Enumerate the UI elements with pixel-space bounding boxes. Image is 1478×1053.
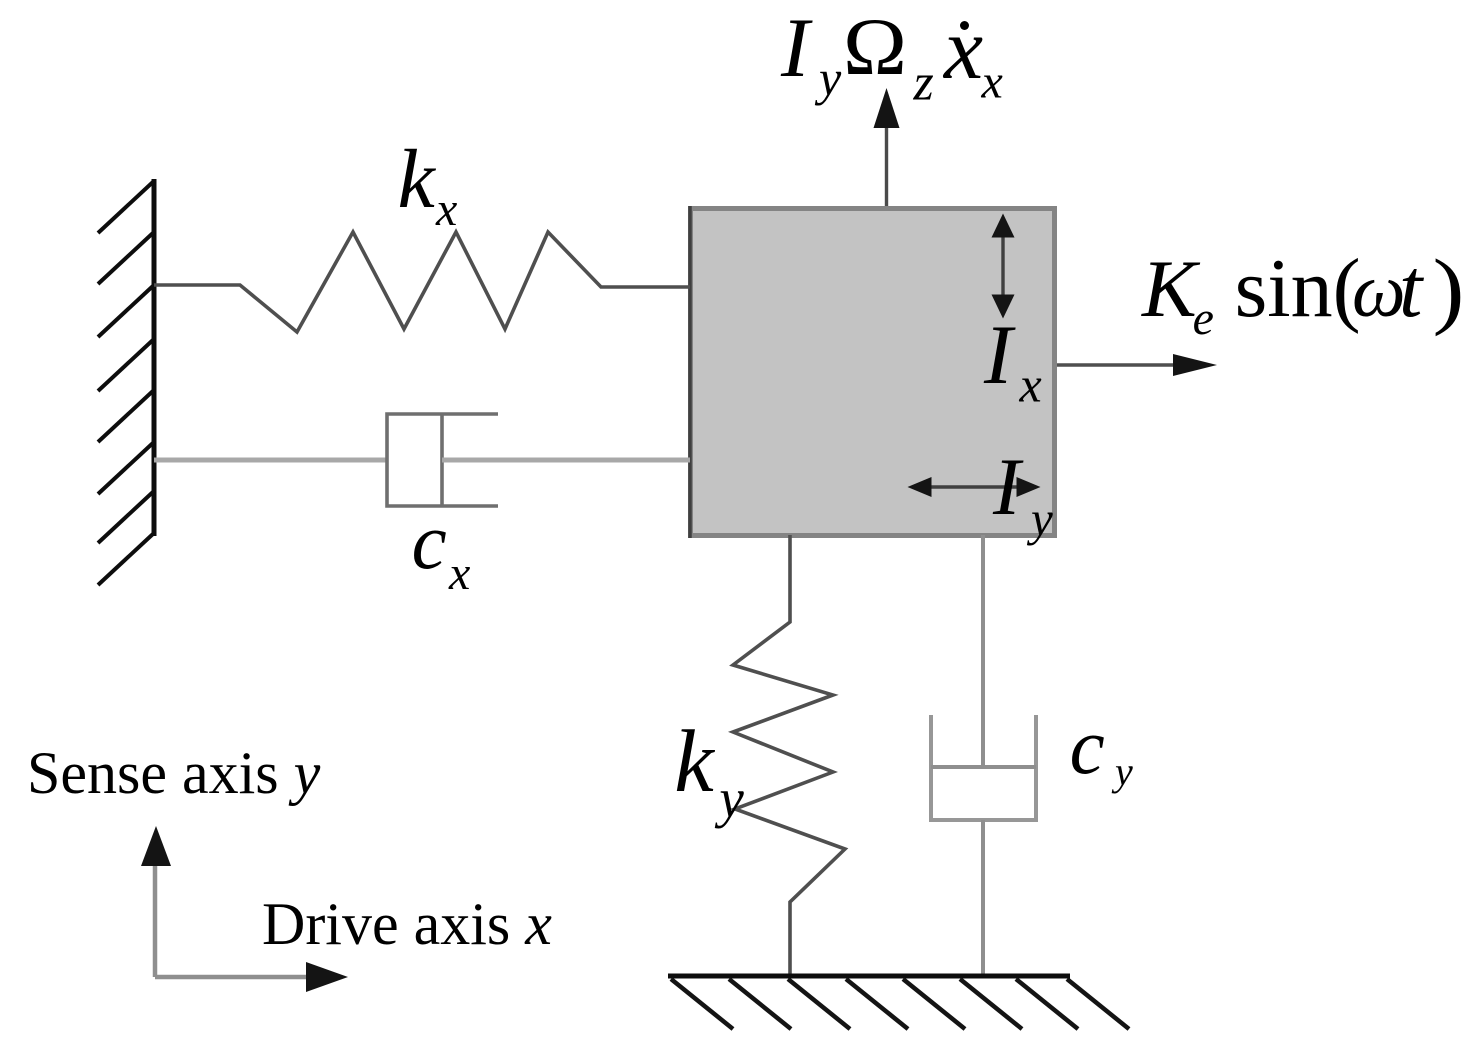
label Drive axis x xyxy=(262,891,552,957)
label Ke sin(wt) xyxy=(1141,241,1465,345)
Ke sin(wt) force arrow xyxy=(1057,354,1217,376)
svg-text:Ω: Ω xyxy=(843,1,907,92)
wall hatch 4 xyxy=(98,339,154,391)
ground hatch 1 xyxy=(671,979,733,1029)
label Ix xyxy=(983,308,1042,413)
ground hatch 4 xyxy=(846,979,908,1029)
ground xyxy=(668,974,1070,979)
label Iy Omega_z xdot_x xyxy=(780,1,1003,112)
svg-text:k: k xyxy=(674,713,715,811)
svg-text:t: t xyxy=(1399,242,1425,335)
svg-text:sin(: sin( xyxy=(1235,242,1361,335)
top Coriolis force arrow xyxy=(874,88,900,206)
mass left edge (darker) xyxy=(688,206,692,538)
wall hatch 8 xyxy=(98,533,154,585)
svg-text:I: I xyxy=(780,1,813,95)
svg-text:x: x xyxy=(1019,357,1042,413)
wall hatch 7 xyxy=(98,491,154,543)
svg-text:x: x xyxy=(981,56,1003,109)
ground hatch 2 xyxy=(729,979,791,1029)
damper cx cylinder xyxy=(387,414,498,506)
svg-text:y: y xyxy=(1111,749,1133,794)
svg-text:y: y xyxy=(1026,491,1053,546)
Ix displacement double arrow xyxy=(992,214,1015,319)
damper cx rod right xyxy=(442,458,690,463)
label kx xyxy=(398,133,458,236)
drive axis arrow (horizontal) xyxy=(155,975,310,980)
svg-text:I: I xyxy=(992,441,1024,532)
ground hatch 7 xyxy=(1016,979,1078,1029)
wall hatch 5 xyxy=(98,390,154,442)
damper cx piston xyxy=(440,414,444,506)
wall (left fixed support) xyxy=(152,179,157,536)
ground hatch 3 xyxy=(788,979,850,1029)
ground hatch 6 xyxy=(960,979,1022,1029)
svg-text:z: z xyxy=(913,55,934,112)
spring kx xyxy=(154,232,690,332)
spring ky xyxy=(733,535,845,976)
wall hatch 2 xyxy=(98,232,154,284)
wall hatch 6 xyxy=(98,442,154,494)
svg-text:c: c xyxy=(1070,704,1105,791)
damper cx rod left xyxy=(154,458,388,463)
svg-text:x: x xyxy=(435,183,457,236)
damper cy rod top xyxy=(981,535,985,765)
ground hatch 8 xyxy=(1067,979,1129,1029)
mass block M xyxy=(691,209,1055,536)
svg-text:Sense axis y: Sense axis y xyxy=(27,740,321,806)
svg-text:I: I xyxy=(983,308,1016,402)
svg-text:x: x xyxy=(942,1,983,98)
Iy displacement double arrow xyxy=(908,477,1041,497)
svg-text:x: x xyxy=(448,547,470,600)
damper cy rod bottom xyxy=(981,820,985,976)
svg-text:): ) xyxy=(1433,241,1465,337)
damper cy cylinder xyxy=(931,715,1036,820)
damper cy piston xyxy=(931,765,1036,769)
label cx xyxy=(412,499,471,600)
svg-text:c: c xyxy=(412,499,447,586)
svg-text:y: y xyxy=(814,50,842,106)
svg-text:e: e xyxy=(1193,292,1214,345)
label Iy xyxy=(992,441,1053,546)
svg-text:y: y xyxy=(714,768,744,829)
ground hatch 5 xyxy=(903,979,965,1029)
wall hatch 1 xyxy=(98,181,154,233)
label Sense axis y xyxy=(27,740,321,806)
svg-text:ω: ω xyxy=(1352,249,1406,333)
wall hatch 3 xyxy=(98,285,154,337)
label ky xyxy=(674,713,744,829)
svg-text:k: k xyxy=(398,133,437,226)
svg-text:Drive axis x: Drive axis x xyxy=(262,891,552,957)
label cy xyxy=(1070,704,1133,794)
sense axis arrow (vertical) xyxy=(153,860,158,977)
